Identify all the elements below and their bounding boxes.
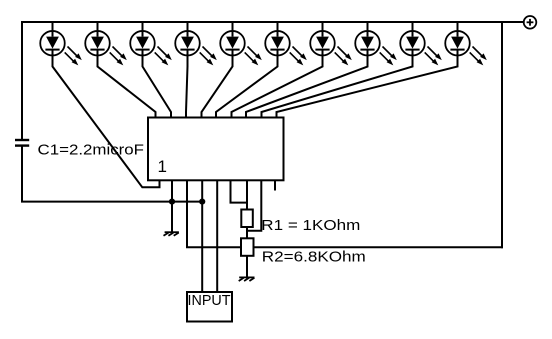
wire LED8 cathode to IC top pin <box>246 50 368 118</box>
svg-text:C1=2.2microF: C1=2.2microF <box>38 143 145 159</box>
wire top supply bus <box>22 21 524 23</box>
LED D3 <box>130 31 172 66</box>
wire LED3 cathode to IC top pin <box>143 50 172 118</box>
wire LED9 cathode to IC top pin <box>262 50 413 118</box>
wire right rail <box>501 22 503 247</box>
wire LED4 anode drop <box>187 22 189 36</box>
wire LED6 cathode to IC top pin <box>216 50 278 118</box>
wire R2 to ground <box>246 256 248 278</box>
wire LED8 anode drop <box>367 22 369 36</box>
wire LED9 anode drop <box>412 22 414 36</box>
INPUT connector box <box>187 292 232 322</box>
wire IC ground pin to node A <box>171 180 173 202</box>
wire LED10 cathode to IC top pin <box>277 50 458 118</box>
wire IC pin L-bend to R1 top <box>231 180 248 202</box>
resistor R2 <box>241 238 254 256</box>
wire LED5 cathode to IC top pin <box>202 50 233 118</box>
wire LED1 anode drop <box>52 22 54 36</box>
svg-text:R2=6.8KOhm: R2=6.8KOhm <box>262 250 366 266</box>
wire LED3 anode drop <box>142 22 144 36</box>
LED D5 <box>220 31 262 66</box>
IC U1 bar-graph driver body <box>148 118 284 181</box>
LED D1 <box>40 31 82 66</box>
wire LED5 anode drop <box>232 22 234 36</box>
LED D9 <box>400 31 442 66</box>
wire IC pin to R1 <box>246 180 248 210</box>
power terminal plus <box>524 16 537 29</box>
wire LED10 anode drop <box>457 22 459 36</box>
wire LED2 cathode to IC top pin <box>98 50 156 118</box>
resistor R1 <box>241 210 253 228</box>
wire LED7 cathode to IC top pin <box>232 50 323 118</box>
wire LED6 anode drop <box>277 22 279 36</box>
LED D2 <box>85 31 127 66</box>
wire IC pin L-bend to R1/R2 junction <box>247 180 261 230</box>
wire IC unconnected pin stub <box>274 180 276 189</box>
wire LED7 anode drop <box>322 22 324 36</box>
wire R1 to R2 <box>246 227 248 239</box>
wire left rail lower (C1 bottom plate to bottom-left corner) <box>22 146 202 202</box>
LED D8 <box>355 31 397 66</box>
LED D7 <box>310 31 352 66</box>
ground G1 <box>164 202 179 236</box>
wire LED4 cathode to IC top pin <box>186 50 188 118</box>
LED D4 <box>175 31 217 66</box>
wire IC divider pin down and across to right rail <box>187 180 502 247</box>
svg-text:R1 = 1KOhm: R1 = 1KOhm <box>261 218 360 234</box>
svg-text:INPUT: INPUT <box>188 292 231 309</box>
wire IC signal pin to INPUT left <box>201 180 203 292</box>
wire LED1 cathode diagonal to IC pin 1 <box>53 50 160 187</box>
ground G2 <box>239 277 255 281</box>
wire LED2 anode drop <box>97 22 99 36</box>
LED D6 <box>265 31 307 66</box>
node B junction dot <box>199 199 205 205</box>
LED D10 <box>445 31 487 66</box>
wire left rail upper (bus to C1 top plate) <box>21 22 23 140</box>
node A junction dot <box>169 199 175 205</box>
capacitor C1 <box>15 140 29 146</box>
svg-text:1: 1 <box>158 157 167 176</box>
wire IC signal pin to INPUT right <box>216 180 218 292</box>
